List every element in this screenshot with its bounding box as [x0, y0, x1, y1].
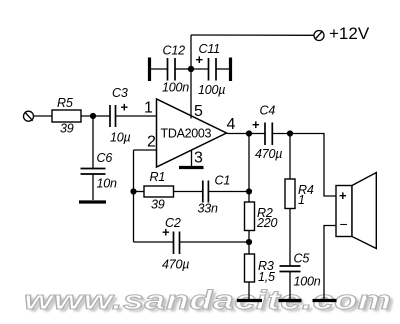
svg-text:C12: C12: [163, 44, 186, 58]
svg-text:3: 3: [194, 150, 203, 167]
svg-text:TDA2003: TDA2003: [161, 127, 212, 141]
svg-text:−: −: [340, 216, 348, 232]
capacitor C1: [174, 174, 250, 216]
svg-text:C5: C5: [294, 252, 310, 266]
svg-text:+: +: [121, 100, 129, 115]
input terminal: [24, 111, 53, 121]
node: [188, 66, 194, 72]
capacitor C12: [151, 44, 192, 95]
svg-text:100n: 100n: [294, 275, 321, 289]
svg-text:2: 2: [147, 134, 156, 151]
svg-text:1: 1: [144, 100, 153, 117]
node: [246, 188, 252, 194]
resistor R1: [134, 170, 174, 212]
wire: [290, 134, 336, 197]
pin 5: [191, 35, 203, 120]
ground: [229, 58, 232, 82]
svg-text:1,5: 1,5: [258, 270, 275, 284]
svg-text:5: 5: [194, 103, 203, 120]
capacitor C11: [191, 42, 230, 97]
ground: [279, 299, 302, 302]
capacitor C5: [280, 252, 321, 300]
wire: [133, 150, 135, 192]
svg-text:220: 220: [256, 216, 278, 230]
ground: [79, 200, 106, 203]
capacitor C2: [134, 192, 250, 272]
svg-text:+: +: [339, 188, 347, 203]
svg-text:C11: C11: [199, 42, 220, 56]
svg-text:C4: C4: [260, 104, 276, 118]
svg-text:C2: C2: [165, 216, 181, 230]
capacitor C6: [81, 116, 118, 200]
svg-text:39: 39: [151, 198, 165, 212]
svg-text:R5: R5: [57, 96, 73, 110]
svg-text:470µ: 470µ: [162, 258, 189, 272]
svg-text:10µ: 10µ: [110, 131, 131, 145]
node: [130, 188, 136, 194]
svg-text:C1: C1: [215, 174, 231, 188]
resistor R5: [52, 96, 81, 136]
svg-text:39: 39: [60, 122, 74, 136]
pin 3: [192, 150, 204, 167]
svg-text:100n: 100n: [162, 81, 189, 95]
svg-text:C3: C3: [112, 86, 128, 100]
ground: [148, 58, 151, 82]
svg-text:+: +: [252, 117, 260, 132]
speaker LS1: [336, 173, 376, 249]
wire: [248, 134, 250, 192]
svg-text:100µ: 100µ: [198, 83, 225, 97]
wire: [116, 115, 157, 117]
svg-text:4: 4: [227, 116, 236, 133]
svg-text:C6: C6: [97, 151, 113, 165]
svg-text:10n: 10n: [97, 177, 118, 191]
node: [90, 113, 96, 119]
svg-text:470µ: 470µ: [255, 147, 282, 161]
svg-text:33n: 33n: [198, 202, 219, 216]
ground: [179, 166, 204, 169]
pin 4: [227, 116, 265, 134]
svg-text:1: 1: [298, 193, 305, 207]
resistor R3: [245, 254, 276, 299]
wire: [191, 34, 314, 36]
resistor R4: [285, 134, 314, 266]
op-amp U1 TDA2003: [157, 99, 227, 167]
node B: [287, 130, 293, 136]
node A: [246, 130, 252, 136]
wire: [324, 226, 336, 300]
watermark: [24, 285, 392, 316]
terminal +12V: [314, 24, 370, 43]
node: [246, 239, 252, 245]
svg-text:R1: R1: [150, 170, 166, 184]
pin 2: [134, 134, 157, 151]
wire: [81, 115, 110, 117]
ground: [237, 299, 262, 302]
capacitor C3: [110, 86, 131, 145]
svg-text:+12V: +12V: [329, 24, 370, 43]
ground: [313, 299, 337, 302]
resistor R2: [245, 192, 278, 255]
capacitor C4: [252, 104, 290, 162]
